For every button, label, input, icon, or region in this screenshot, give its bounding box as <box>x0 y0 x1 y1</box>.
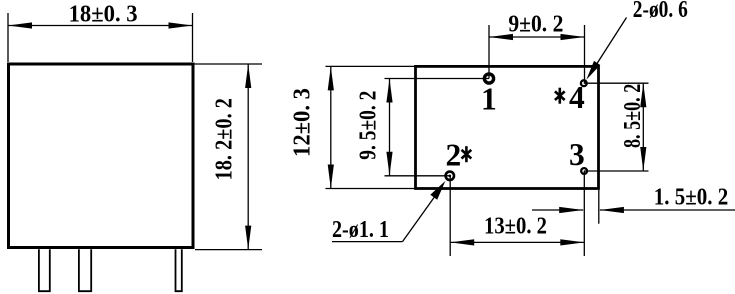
svg-text:12±0. 3: 12±0. 3 <box>289 88 316 157</box>
svg-text:2: 2 <box>446 137 462 172</box>
svg-text:3: 3 <box>569 137 585 172</box>
svg-text:2-ø1. 1: 2-ø1. 1 <box>332 216 389 243</box>
svg-text:9. 5±0. 2: 9. 5±0. 2 <box>355 91 382 160</box>
svg-text:8. 5±0. 2: 8. 5±0. 2 <box>619 84 646 148</box>
svg-text:1. 5±0. 2: 1. 5±0. 2 <box>654 184 729 211</box>
svg-text:18. 2±0. 2: 18. 2±0. 2 <box>211 98 238 180</box>
svg-text:18±0. 3: 18±0. 3 <box>69 1 138 28</box>
svg-text:4: 4 <box>569 80 585 115</box>
svg-text:9±0. 2: 9±0. 2 <box>508 10 563 37</box>
svg-text:13±0. 2: 13±0. 2 <box>484 213 547 240</box>
svg-text:1: 1 <box>481 82 497 117</box>
svg-text:2-ø0. 6: 2-ø0. 6 <box>633 0 688 23</box>
